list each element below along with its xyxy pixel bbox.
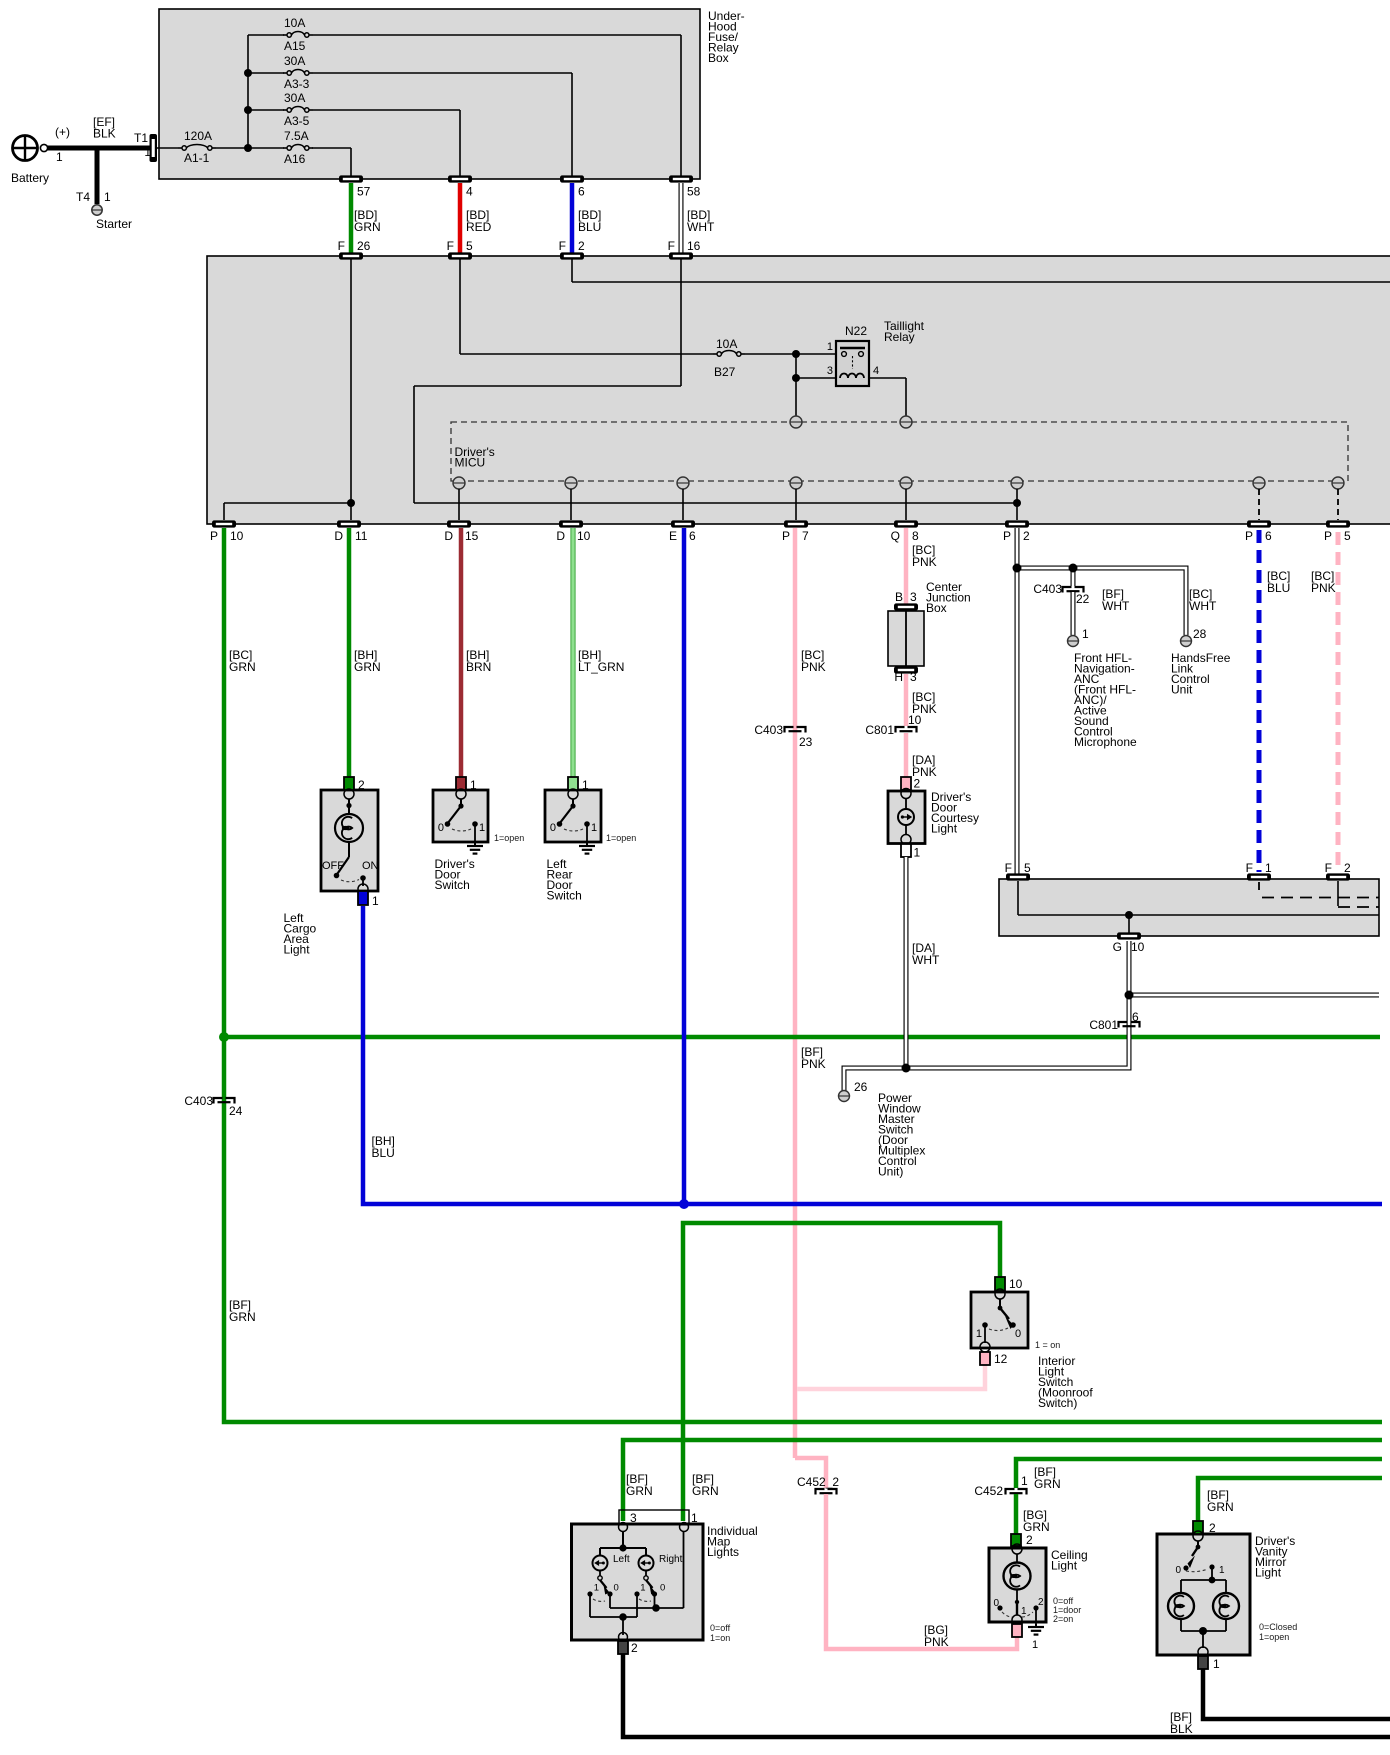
svg-text:Battery: Battery <box>11 171 49 185</box>
svg-text:0: 0 <box>550 822 556 834</box>
svg-text:6: 6 <box>689 529 696 543</box>
svg-text:1: 1 <box>144 145 151 159</box>
svg-text:1=open: 1=open <box>606 833 636 843</box>
svg-text:Unit: Unit <box>1171 683 1193 697</box>
svg-text:C403: C403 <box>1033 582 1062 596</box>
svg-text:Lights: Lights <box>707 1545 739 1559</box>
svg-text:GRN: GRN <box>1023 1520 1050 1534</box>
svg-text:B: B <box>895 590 903 604</box>
svg-text:1=on: 1=on <box>710 1633 730 1643</box>
svg-text:WHT: WHT <box>687 220 715 234</box>
svg-text:10: 10 <box>577 529 591 543</box>
svg-text:1: 1 <box>582 778 589 792</box>
svg-text:1: 1 <box>1082 627 1089 641</box>
svg-text:F: F <box>1325 861 1332 875</box>
svg-text:4: 4 <box>873 365 879 377</box>
svg-text:0: 0 <box>1175 1565 1181 1576</box>
svg-text:E: E <box>669 529 677 543</box>
svg-text:3: 3 <box>910 590 917 604</box>
svg-text:6: 6 <box>1265 529 1272 543</box>
svg-text:N22: N22 <box>845 324 867 338</box>
svg-text:2=on: 2=on <box>1053 1614 1073 1624</box>
svg-text:5: 5 <box>1024 861 1031 875</box>
svg-text:Left: Left <box>613 1554 630 1565</box>
svg-text:0: 0 <box>1015 1328 1021 1340</box>
svg-text:7.5A: 7.5A <box>284 129 309 143</box>
svg-text:RED: RED <box>466 220 492 234</box>
svg-text:7: 7 <box>802 529 809 543</box>
svg-text:30A: 30A <box>284 91 305 105</box>
svg-text:G: G <box>1113 940 1122 954</box>
svg-text:2: 2 <box>1023 529 1030 543</box>
svg-text:GRN: GRN <box>229 660 256 674</box>
svg-text:1: 1 <box>1021 1474 1028 1488</box>
svg-text:1: 1 <box>1213 1657 1220 1671</box>
svg-text:23: 23 <box>799 735 813 749</box>
svg-text:Light: Light <box>1255 1566 1282 1580</box>
svg-text:MICU: MICU <box>455 456 486 470</box>
svg-text:26: 26 <box>357 239 371 253</box>
svg-text:0: 0 <box>438 822 444 834</box>
svg-text:Right: Right <box>659 1554 683 1565</box>
svg-text:5: 5 <box>1344 529 1351 543</box>
svg-text:GRN: GRN <box>229 1310 256 1324</box>
svg-text:(+): (+) <box>55 125 70 139</box>
svg-text:P: P <box>1003 529 1011 543</box>
svg-text:PNK: PNK <box>912 555 937 569</box>
svg-text:11: 11 <box>355 529 368 543</box>
svg-text:1: 1 <box>372 894 379 908</box>
svg-text:D: D <box>334 529 343 543</box>
svg-text:1: 1 <box>56 150 63 164</box>
svg-text:24: 24 <box>229 1104 243 1118</box>
svg-text:2: 2 <box>631 1641 638 1655</box>
svg-text:WHT: WHT <box>1102 599 1130 613</box>
svg-text:T1: T1 <box>134 131 148 145</box>
svg-text:H: H <box>894 670 903 684</box>
svg-text:8: 8 <box>912 529 919 543</box>
svg-text:A16: A16 <box>284 152 306 166</box>
svg-text:1: 1 <box>914 846 921 860</box>
svg-text:GRN: GRN <box>1207 1500 1234 1514</box>
svg-text:57: 57 <box>357 185 371 199</box>
svg-text:0: 0 <box>660 1583 665 1594</box>
svg-text:28: 28 <box>1193 627 1207 641</box>
svg-text:1: 1 <box>591 822 597 834</box>
svg-text:P: P <box>1245 529 1253 543</box>
svg-text:C403: C403 <box>184 1094 213 1108</box>
svg-text:1: 1 <box>1265 861 1272 875</box>
svg-text:BLU: BLU <box>1267 581 1290 595</box>
svg-text:2: 2 <box>1038 1597 1044 1608</box>
svg-text:PNK: PNK <box>924 1635 949 1649</box>
svg-text:1: 1 <box>1219 1565 1225 1576</box>
svg-text:GRN: GRN <box>354 220 381 234</box>
svg-text:Box: Box <box>926 601 947 615</box>
svg-text:10: 10 <box>1009 1277 1023 1291</box>
svg-text:Light: Light <box>1051 1559 1078 1573</box>
svg-text:LT_GRN: LT_GRN <box>578 660 624 674</box>
svg-text:PNK: PNK <box>1311 581 1336 595</box>
svg-text:A3-5: A3-5 <box>284 114 310 128</box>
svg-text:WHT: WHT <box>1189 599 1217 613</box>
svg-text:F: F <box>338 239 345 253</box>
svg-text:1=open: 1=open <box>494 833 524 843</box>
svg-text:22: 22 <box>1076 592 1090 606</box>
svg-text:F: F <box>668 239 675 253</box>
svg-text:Switch): Switch) <box>1038 1396 1077 1410</box>
svg-text:GRN: GRN <box>692 1484 719 1498</box>
svg-text:30A: 30A <box>284 54 305 68</box>
svg-text:1: 1 <box>594 1583 599 1594</box>
svg-text:1: 1 <box>976 1328 982 1340</box>
svg-text:1: 1 <box>1032 1639 1038 1651</box>
svg-text:1: 1 <box>470 778 477 792</box>
svg-text:1=open: 1=open <box>1259 1632 1289 1642</box>
svg-text:WHT: WHT <box>912 953 940 967</box>
svg-text:BRN: BRN <box>466 660 491 674</box>
svg-text:1: 1 <box>827 341 833 353</box>
svg-text:15: 15 <box>465 529 479 543</box>
svg-text:C452_2: C452_2 <box>797 1475 839 1489</box>
svg-text:3: 3 <box>827 365 833 377</box>
svg-text:C801: C801 <box>1089 1018 1118 1032</box>
svg-text:D: D <box>556 529 565 543</box>
svg-text:A3-3: A3-3 <box>284 77 310 91</box>
svg-text:F: F <box>1246 861 1253 875</box>
svg-text:1: 1 <box>479 822 485 834</box>
svg-text:Switch: Switch <box>547 889 582 903</box>
svg-text:P: P <box>1324 529 1332 543</box>
svg-text:F: F <box>559 239 566 253</box>
svg-text:F: F <box>1005 861 1012 875</box>
svg-text:0=Closed: 0=Closed <box>1259 1622 1297 1632</box>
svg-text:2: 2 <box>1026 1533 1033 1547</box>
svg-text:P: P <box>782 529 790 543</box>
svg-text:B27: B27 <box>714 365 736 379</box>
svg-text:5: 5 <box>466 239 473 253</box>
svg-text:16: 16 <box>687 239 701 253</box>
svg-text:10: 10 <box>908 713 922 727</box>
svg-text:1: 1 <box>104 190 111 204</box>
svg-text:1: 1 <box>640 1583 645 1594</box>
svg-text:PNK: PNK <box>801 660 826 674</box>
svg-text:F: F <box>447 239 454 253</box>
svg-text:6: 6 <box>1132 1010 1139 1024</box>
svg-text:Starter: Starter <box>96 217 132 231</box>
svg-text:Unit): Unit) <box>878 1165 903 1179</box>
svg-text:A15: A15 <box>284 39 306 53</box>
svg-text:1: 1 <box>1021 1606 1027 1617</box>
svg-text:2: 2 <box>1344 861 1351 875</box>
svg-text:C801: C801 <box>865 723 894 737</box>
svg-text:Relay: Relay <box>884 330 915 344</box>
svg-text:1 = on: 1 = on <box>1035 1340 1060 1350</box>
svg-text:26: 26 <box>854 1080 868 1094</box>
svg-text:Box: Box <box>708 51 729 65</box>
svg-text:2: 2 <box>914 777 921 791</box>
svg-text:0: 0 <box>614 1583 619 1594</box>
svg-text:Light: Light <box>931 822 958 836</box>
svg-text:3: 3 <box>910 670 917 684</box>
svg-text:120A: 120A <box>184 129 212 143</box>
svg-text:BLU: BLU <box>372 1146 395 1160</box>
svg-text:D: D <box>444 529 453 543</box>
svg-text:P: P <box>210 529 218 543</box>
svg-text:4: 4 <box>466 185 473 199</box>
svg-text:10A: 10A <box>716 337 737 351</box>
svg-text:2: 2 <box>358 778 365 792</box>
svg-text:OFF: OFF <box>322 860 344 872</box>
svg-text:BLK: BLK <box>1170 1722 1193 1736</box>
svg-text:BLK: BLK <box>93 127 116 141</box>
svg-text:10A: 10A <box>284 16 305 30</box>
svg-text:BLU: BLU <box>578 220 601 234</box>
svg-text:GRN: GRN <box>1034 1477 1061 1491</box>
svg-text:Light: Light <box>284 943 311 957</box>
svg-text:58: 58 <box>687 185 701 199</box>
svg-text:PNK: PNK <box>801 1057 826 1071</box>
svg-text:A1-1: A1-1 <box>184 151 210 165</box>
svg-text:2: 2 <box>578 239 585 253</box>
svg-text:T4: T4 <box>76 190 90 204</box>
svg-text:Switch: Switch <box>435 878 470 892</box>
svg-text:GRN: GRN <box>354 660 381 674</box>
svg-text:2: 2 <box>1209 1521 1216 1535</box>
svg-text:0=off: 0=off <box>710 1623 731 1633</box>
svg-text:GRN: GRN <box>626 1484 653 1498</box>
svg-text:Microphone: Microphone <box>1074 735 1137 749</box>
svg-text:C452: C452 <box>974 1484 1003 1498</box>
svg-text:12: 12 <box>994 1352 1008 1366</box>
svg-text:ON: ON <box>362 860 379 872</box>
svg-text:6: 6 <box>578 185 585 199</box>
svg-text:Q: Q <box>891 529 900 543</box>
svg-text:10: 10 <box>230 529 244 543</box>
svg-text:10: 10 <box>1131 940 1145 954</box>
svg-text:C403: C403 <box>754 723 783 737</box>
